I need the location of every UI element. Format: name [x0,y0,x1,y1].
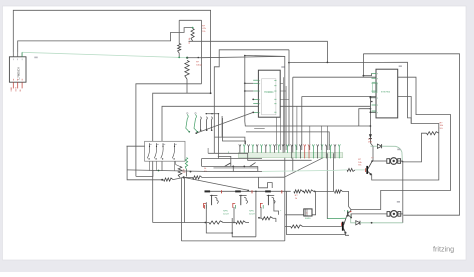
svg-text:g: g [228,152,229,154]
wire relay bottom stubs [150,161,175,171]
label R9 [295,195,299,200]
wire long green [22,52,187,57]
wire box right vertical [201,20,203,84]
node bus x255 [255,191,257,193]
wire diagonal D2 [284,153,333,178]
node R1 top [192,27,194,29]
fritzing watermark [433,245,454,254]
wire Q11 collector [350,210,352,211]
wire y131 net [246,132,329,150]
label q10 [371,158,374,160]
resistor R13 [262,217,273,220]
label R5 [440,123,444,130]
wire boundary top [214,50,289,154]
wire x201 down [201,159,203,167]
resistor R9 [294,190,303,193]
resistor R6 on y170 [347,168,355,171]
servo M3 body [304,209,312,220]
node M1 right [402,161,404,163]
svg-text:GND: GND [11,87,13,92]
wire motor M2 right [397,213,403,215]
label U1 [34,57,37,59]
wire R5 left [403,133,427,162]
diode D1 [377,144,381,148]
label R1 [189,37,191,44]
wire bus y234 [286,234,346,236]
wire D3 to D1 [370,139,373,146]
wire Q9 collector [345,215,348,217]
node 327 y62 [327,62,329,64]
wire bus y96 [302,97,411,124]
wire y166 net [202,165,258,167]
svg-text:bc547: bc547 [223,213,229,215]
board strip [238,153,342,158]
wire y158 net [202,158,262,160]
svg-text:5%: 5% [183,172,186,174]
resistor R1 vertical [191,29,194,42]
wire box left vertical [178,20,180,43]
wire x289 vertical [288,50,290,146]
relay coil zig [176,161,182,177]
transistor Q9 power [342,217,347,233]
green pin stub [21,52,23,57]
wire branch y108 [359,109,371,126]
wire x370 vertical [369,97,371,141]
transistor Q2 [233,195,248,209]
wire x286 down [285,191,287,234]
label D1 [368,139,373,144]
svg-text:p: p [259,99,260,101]
regulator top pins [13,53,22,57]
node lever base [195,132,197,134]
wire green to R6 [330,169,347,172]
label R? 47k [202,26,206,33]
svg-text:SG90: SG90 [305,218,311,220]
wire y137 net [215,137,245,144]
wire x208 stub [207,148,209,153]
node pin b [244,90,246,92]
label coil [204,168,207,173]
wire R4 tails [186,79,188,93]
diode D3 vertical [369,134,372,138]
wire y83 net [136,84,202,177]
svg-text:p: p [377,78,378,80]
resistor R8 [193,176,203,179]
wire servo staircase [274,200,279,215]
wire v280 [279,117,281,150]
node y233 [231,232,233,234]
wire diode D1 net [370,146,402,161]
switch S4 [243,163,255,168]
wire Q9 emitter [345,233,349,236]
label coil red [183,170,186,175]
wire x206 down [206,202,232,233]
wire R14 to Q9 [303,226,342,228]
IC U2 left pins [253,80,260,114]
wire bus y222 [153,222,209,224]
diode D2 [356,221,360,225]
svg-text:5%: 5% [358,164,361,166]
resistor R11 [335,190,343,193]
wire IC2 pin net a [363,73,371,75]
node bus y171 a [190,171,192,173]
switch cluster S2 [186,113,213,133]
wire v286 [285,86,287,150]
transistor Q11 [347,210,352,218]
wire v283 [282,77,284,150]
svg-text:R1 1k: R1 1k [189,37,191,44]
wire x255 up [255,191,257,237]
resistor R12b [236,221,246,224]
svg-text:fritzing: fritzing [433,245,454,254]
wire x257 down [257,166,259,171]
wire header bus [208,153,312,160]
node R7 left2 [161,179,163,181]
node 245 y55 [244,55,246,57]
wire bus y56 [245,56,285,178]
wire v321 [321,126,323,150]
wire bus y77 [293,77,451,209]
wire y93 net [153,93,211,222]
svg-text:10kΩ: 10kΩ [196,64,202,66]
svg-text:p: p [259,83,260,85]
wire v276 [275,117,277,150]
wire x292 vertical [292,77,294,171]
header J1 pins [239,144,341,158]
wire x222 stub [221,116,223,137]
IC U2 right pin labels [274,80,276,113]
label gnd green [228,152,229,154]
wire Q2 drop [233,207,235,223]
wire bus y41 [189,41,328,62]
IC U2 sensor body [258,70,280,117]
wire motor M1 right [397,160,403,163]
node y93 [210,92,212,94]
motor M2 [387,211,401,218]
resistor R5 [427,132,439,135]
svg-text:p: p [377,97,378,99]
label A1 [281,66,284,68]
node y108 [370,108,372,110]
node IC2 c [370,111,372,113]
node green junction A [178,57,180,59]
node x370 top [370,96,372,98]
svg-text:bc547: bc547 [249,213,255,215]
transistor Q10 [366,160,373,175]
wire staircase mid [258,177,272,188]
wire bus y191 [206,190,291,192]
node 289 y62 [288,62,290,64]
wire bus y171 [127,170,330,172]
svg-text:L7805CV: L7805CV [16,67,20,80]
svg-text:5%: 5% [202,31,205,33]
node y222 a [205,222,207,224]
svg-text:p: p [259,91,260,93]
svg-text:p: p [377,73,378,75]
wire IC1 right stubs [280,83,289,99]
svg-text:rs: rs [306,211,308,214]
node pin c [252,99,254,101]
wire diagonal D3 [196,112,253,133]
wire y156 net [218,156,231,166]
wire y191 right [314,190,334,192]
node y57 b [198,57,200,59]
svg-text:p: p [377,112,378,114]
wire y141 net [223,118,246,144]
wire bottom y240 [181,240,284,242]
node D2 [371,222,373,224]
resistor R4 big [185,61,189,80]
wire motor M1 left [373,160,387,162]
wire x327 long [326,153,328,219]
motor M1 [387,158,401,165]
node x370 a [370,125,372,127]
label R6 [358,159,362,166]
wire pin2 staircase [18,28,193,53]
wire y236 net [232,233,256,237]
wire R8 tails [184,176,285,178]
node y191 c [314,191,316,193]
svg-text:5%: 5% [440,128,443,130]
svg-text:NPN: NPN [223,211,228,213]
svg-text:c: c [280,210,281,212]
node IC2 b [370,97,372,99]
IC U3 left pins [372,73,379,114]
wire R13 tails [259,218,276,222]
wire x301 vertical [301,97,303,151]
wire diagonal D1 [184,177,249,191]
svg-text:HCSR04: HCSR04 [264,92,274,94]
wire x184 down [184,177,186,222]
node y177 [183,176,185,178]
resistor R12 [209,221,223,224]
wire R6 to T base [355,169,366,171]
resistor R14 [291,225,303,228]
regulator bottom pins (unconnected, red) [11,82,22,91]
wire v327b [326,126,328,150]
label A2 [399,65,402,67]
node IC2 a [363,75,365,77]
wire box top [179,19,201,21]
wire x363 vertical [362,54,364,76]
label R3 [196,62,202,67]
wire x126 vertical [127,146,162,180]
wire R7 to node [173,177,184,179]
wire x218 down [218,114,220,159]
tick red q1b [204,205,206,209]
label c green [280,210,281,212]
label green bat [223,211,229,216]
wire VIN top [13,10,210,93]
wire IC2 pin net b [370,97,376,99]
svg-text:p: p [259,112,260,114]
wire bus y57 [187,56,285,57]
svg-text:NPN: NPN [249,211,254,213]
wire diode D2 net [351,214,403,223]
svg-text:p: p [259,103,260,105]
wire y222 right [223,222,249,224]
resistor R7 [164,178,174,181]
switch S3 [225,163,235,167]
wire Q10 collector [371,160,374,162]
relay coil [185,158,187,177]
wire x315 box [285,191,316,214]
wire x135 riser [136,170,153,176]
node green junction B [186,57,188,59]
resistor R2 [178,44,181,54]
node R9 R10 [302,191,304,193]
wire Q10 emitter [372,133,439,180]
bus red ticks [222,190,282,193]
wire x181 down [180,177,182,241]
node R13 [258,217,260,219]
wire y128 net [254,128,265,130]
wire R2 to green node [178,53,180,57]
node x372 mid [371,101,373,103]
wire Q11 base green [327,217,346,219]
wire x245 vertical [245,56,371,127]
svg-text:p: p [259,80,260,82]
label Q2 green [249,211,255,216]
wire x233 down [232,166,234,171]
wire x402 down [402,162,404,223]
wire y168 net [214,167,258,169]
relay K1 body [145,141,185,161]
bus bold segs [205,190,271,192]
wire pin wires from x245 [245,83,253,91]
wire bus y53 [363,54,459,215]
wire y226 net [285,226,291,228]
wire v309 [309,126,311,150]
node pin d [252,112,254,114]
wire v296 [296,106,298,150]
wire lever top bar [206,113,220,114]
wire Q3 drop [260,207,262,218]
IC U3 driver body [376,69,398,118]
wire relay feed [127,145,145,147]
svg-text:p: p [377,105,378,107]
wire y106 net [162,106,370,171]
wire motor M2 left [351,213,387,215]
wire Q11 emitter [350,214,352,218]
node pin a [244,82,246,84]
wire x333 down [333,153,335,191]
transistor Q1 [204,195,219,209]
transistor Q3 [260,195,275,209]
resistor R10 [304,190,314,193]
label q11 green [344,210,345,212]
wire R11 out [343,192,351,210]
svg-text:BTS7960: BTS7960 [381,92,391,94]
wire x284 down [284,177,286,241]
green loop [373,82,378,93]
wire bus y62 [289,62,439,133]
svg-text:g: g [344,210,345,212]
wire IC2 pin net c [370,98,376,113]
voltage regulator U1 body [9,57,26,82]
wire x232 up [231,218,233,233]
label M2 [397,201,400,203]
label M1 [397,149,400,151]
